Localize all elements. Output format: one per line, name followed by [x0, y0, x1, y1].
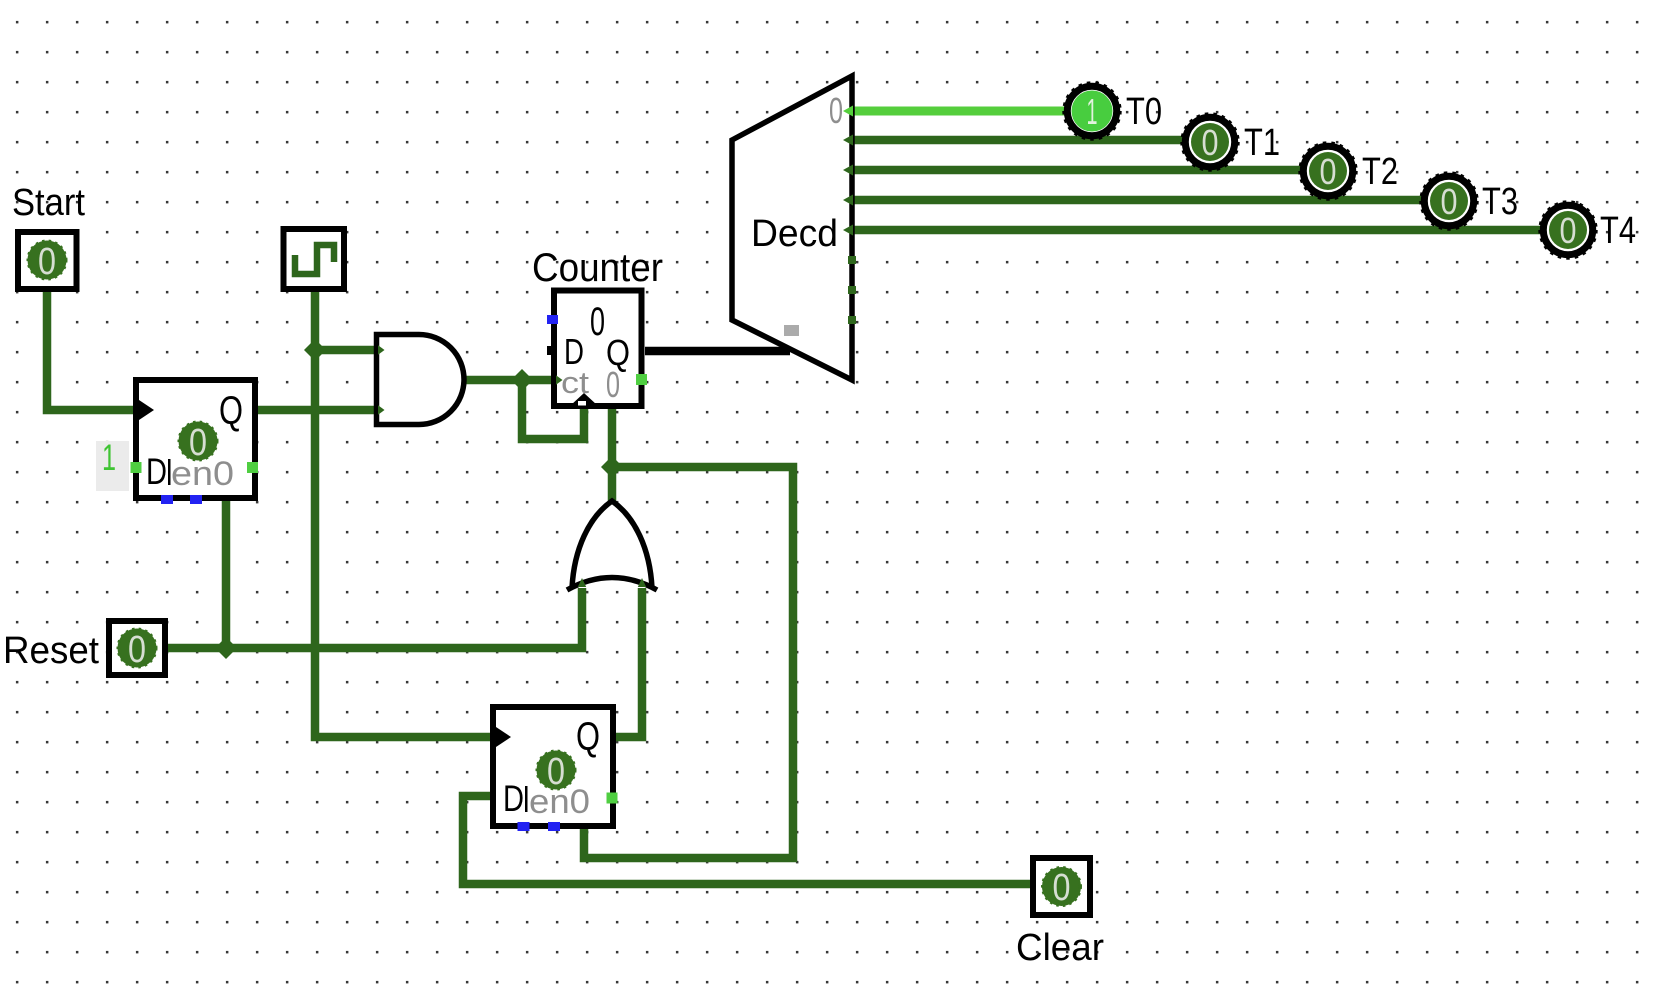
svg-text:0: 0 — [128, 629, 146, 671]
svg-text:0: 0 — [547, 751, 565, 793]
svg-text:D: D — [146, 451, 167, 492]
svg-text:0: 0 — [189, 422, 207, 464]
svg-text:T2: T2 — [1362, 151, 1398, 193]
svg-text:Reset: Reset — [3, 630, 99, 672]
svg-text:Clear: Clear — [1016, 927, 1104, 969]
svg-text:0: 0 — [1441, 181, 1458, 222]
svg-text:Q: Q — [219, 389, 243, 433]
svg-text:1: 1 — [1087, 91, 1098, 132]
svg-text:0: 0 — [1320, 151, 1337, 192]
svg-text:T4: T4 — [1600, 210, 1636, 252]
svg-text:0: 0 — [1202, 122, 1219, 163]
svg-text:0: 0 — [1053, 867, 1071, 909]
svg-text:0: 0 — [38, 241, 56, 283]
svg-text:T1: T1 — [1244, 122, 1280, 164]
svg-text:Start: Start — [12, 182, 85, 224]
svg-text:Decd: Decd — [751, 213, 838, 255]
svg-text:0: 0 — [829, 90, 843, 131]
svg-text:D: D — [503, 778, 524, 819]
svg-text:0: 0 — [606, 364, 620, 405]
svg-text:T0: T0 — [1126, 91, 1162, 133]
svg-text:1: 1 — [102, 437, 116, 478]
svg-text:0: 0 — [1560, 210, 1577, 251]
svg-text:0: 0 — [590, 300, 605, 344]
svg-text:Q: Q — [576, 715, 600, 759]
svg-text:T3: T3 — [1482, 181, 1518, 223]
svg-text:Counter: Counter — [532, 246, 663, 290]
